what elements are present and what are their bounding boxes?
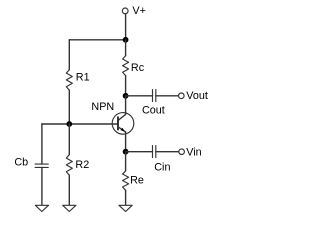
svg-text:Vout: Vout xyxy=(186,90,208,102)
svg-text:Rc: Rc xyxy=(131,62,145,74)
label Cin xyxy=(154,161,170,173)
capacitor Cin xyxy=(153,146,156,158)
terminal Vout xyxy=(179,93,185,99)
wire Cb horizontal drop xyxy=(41,124,43,164)
label Re xyxy=(130,174,144,186)
wire base xyxy=(42,123,118,125)
capacitor Cout xyxy=(153,90,156,102)
label Cb xyxy=(14,157,28,169)
node top junction xyxy=(123,37,129,43)
wire R2 top lead xyxy=(68,124,70,155)
node base junction xyxy=(66,121,72,127)
wire R1 top lead xyxy=(68,40,70,70)
node collector junction xyxy=(123,93,129,99)
label R1 xyxy=(76,71,90,83)
svg-text:Vin: Vin xyxy=(186,146,201,158)
wire Re to ground xyxy=(125,190,127,205)
label Vout xyxy=(186,90,208,102)
top rail wire xyxy=(69,39,125,41)
wire R1 bottom lead xyxy=(68,90,70,124)
wire collector node to Cout xyxy=(126,95,153,97)
svg-text:NPN: NPN xyxy=(91,101,114,113)
ground for Re xyxy=(119,205,132,211)
wire emitter node to Cin xyxy=(126,151,153,153)
svg-text:R2: R2 xyxy=(75,159,89,171)
svg-text:V+: V+ xyxy=(132,5,146,17)
wire Cin to Vin xyxy=(156,151,179,153)
wire Rc bottom lead xyxy=(125,76,127,96)
wire Rc top lead xyxy=(125,40,127,56)
terminal Vin xyxy=(179,149,185,155)
svg-text:Re: Re xyxy=(130,174,144,186)
capacitor Cb xyxy=(35,164,48,167)
svg-text:Cout: Cout xyxy=(142,104,165,116)
wire Cb to ground xyxy=(41,167,43,205)
ground for R2 xyxy=(63,205,76,211)
ground for Cb xyxy=(35,205,48,211)
node emitter junction xyxy=(123,149,129,155)
resistor Re xyxy=(123,171,129,191)
label NPN xyxy=(91,101,114,113)
terminal V+ xyxy=(122,8,128,14)
label V+ xyxy=(132,5,146,17)
svg-text:R1: R1 xyxy=(76,71,90,83)
wire collector xyxy=(118,96,126,121)
resistor Rc xyxy=(123,56,129,76)
wire R2 to ground xyxy=(68,175,70,205)
svg-text:Cin: Cin xyxy=(154,161,170,173)
wire Re top lead xyxy=(125,152,127,171)
svg-text:Cb: Cb xyxy=(14,157,28,169)
wire emitter xyxy=(125,132,127,152)
resistor R1 xyxy=(66,70,72,90)
wire V+ to top junction xyxy=(125,14,127,40)
label Rc xyxy=(131,62,145,74)
label Cout xyxy=(142,104,165,116)
label R2 xyxy=(75,159,89,171)
label Vin xyxy=(186,146,201,158)
resistor R2 xyxy=(66,155,72,175)
wire Cout to Vout xyxy=(156,95,179,97)
transistor Q1 NPN xyxy=(112,113,134,135)
